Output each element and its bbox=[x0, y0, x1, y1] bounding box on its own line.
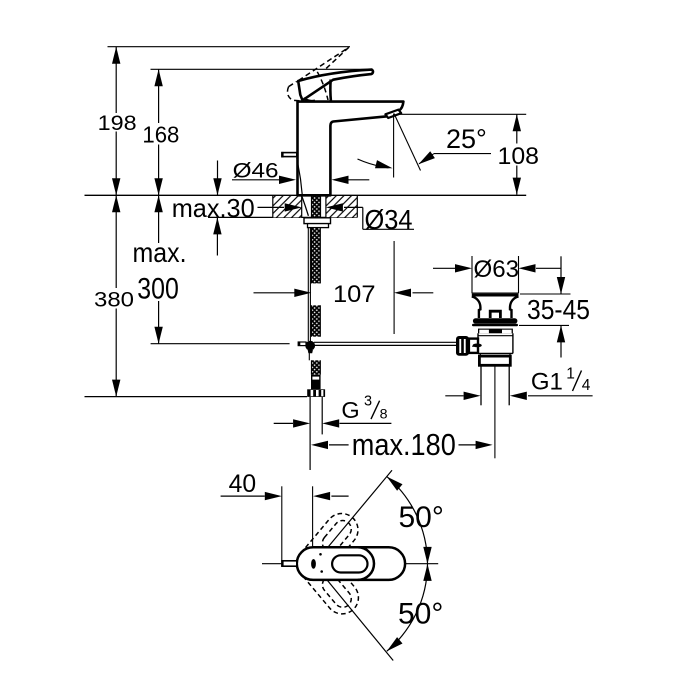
svg-text:50°: 50° bbox=[399, 501, 444, 534]
svg-text:Ø46: Ø46 bbox=[233, 159, 279, 183]
svg-text:107: 107 bbox=[333, 281, 376, 308]
svg-text:40: 40 bbox=[229, 470, 257, 498]
svg-text:Ø34: Ø34 bbox=[365, 204, 413, 235]
svg-text:108: 108 bbox=[498, 143, 540, 170]
svg-text:3: 3 bbox=[364, 394, 372, 410]
svg-text:Ø63: Ø63 bbox=[474, 256, 520, 283]
svg-text:300: 300 bbox=[137, 272, 179, 305]
svg-text:198: 198 bbox=[98, 111, 137, 135]
svg-text:168: 168 bbox=[142, 122, 179, 148]
svg-text:G1: G1 bbox=[531, 369, 563, 396]
svg-text:50°: 50° bbox=[398, 598, 443, 631]
svg-text:8: 8 bbox=[380, 407, 388, 423]
svg-text:25°: 25° bbox=[446, 124, 487, 154]
svg-text:1: 1 bbox=[566, 366, 575, 383]
svg-text:max.: max. bbox=[133, 237, 187, 268]
svg-text:G: G bbox=[341, 397, 359, 423]
svg-text:max.30: max.30 bbox=[172, 193, 255, 223]
svg-text:4: 4 bbox=[582, 377, 591, 394]
svg-text:35-45: 35-45 bbox=[527, 294, 590, 325]
svg-text:380: 380 bbox=[94, 288, 134, 312]
svg-text:max.180: max.180 bbox=[352, 427, 456, 462]
